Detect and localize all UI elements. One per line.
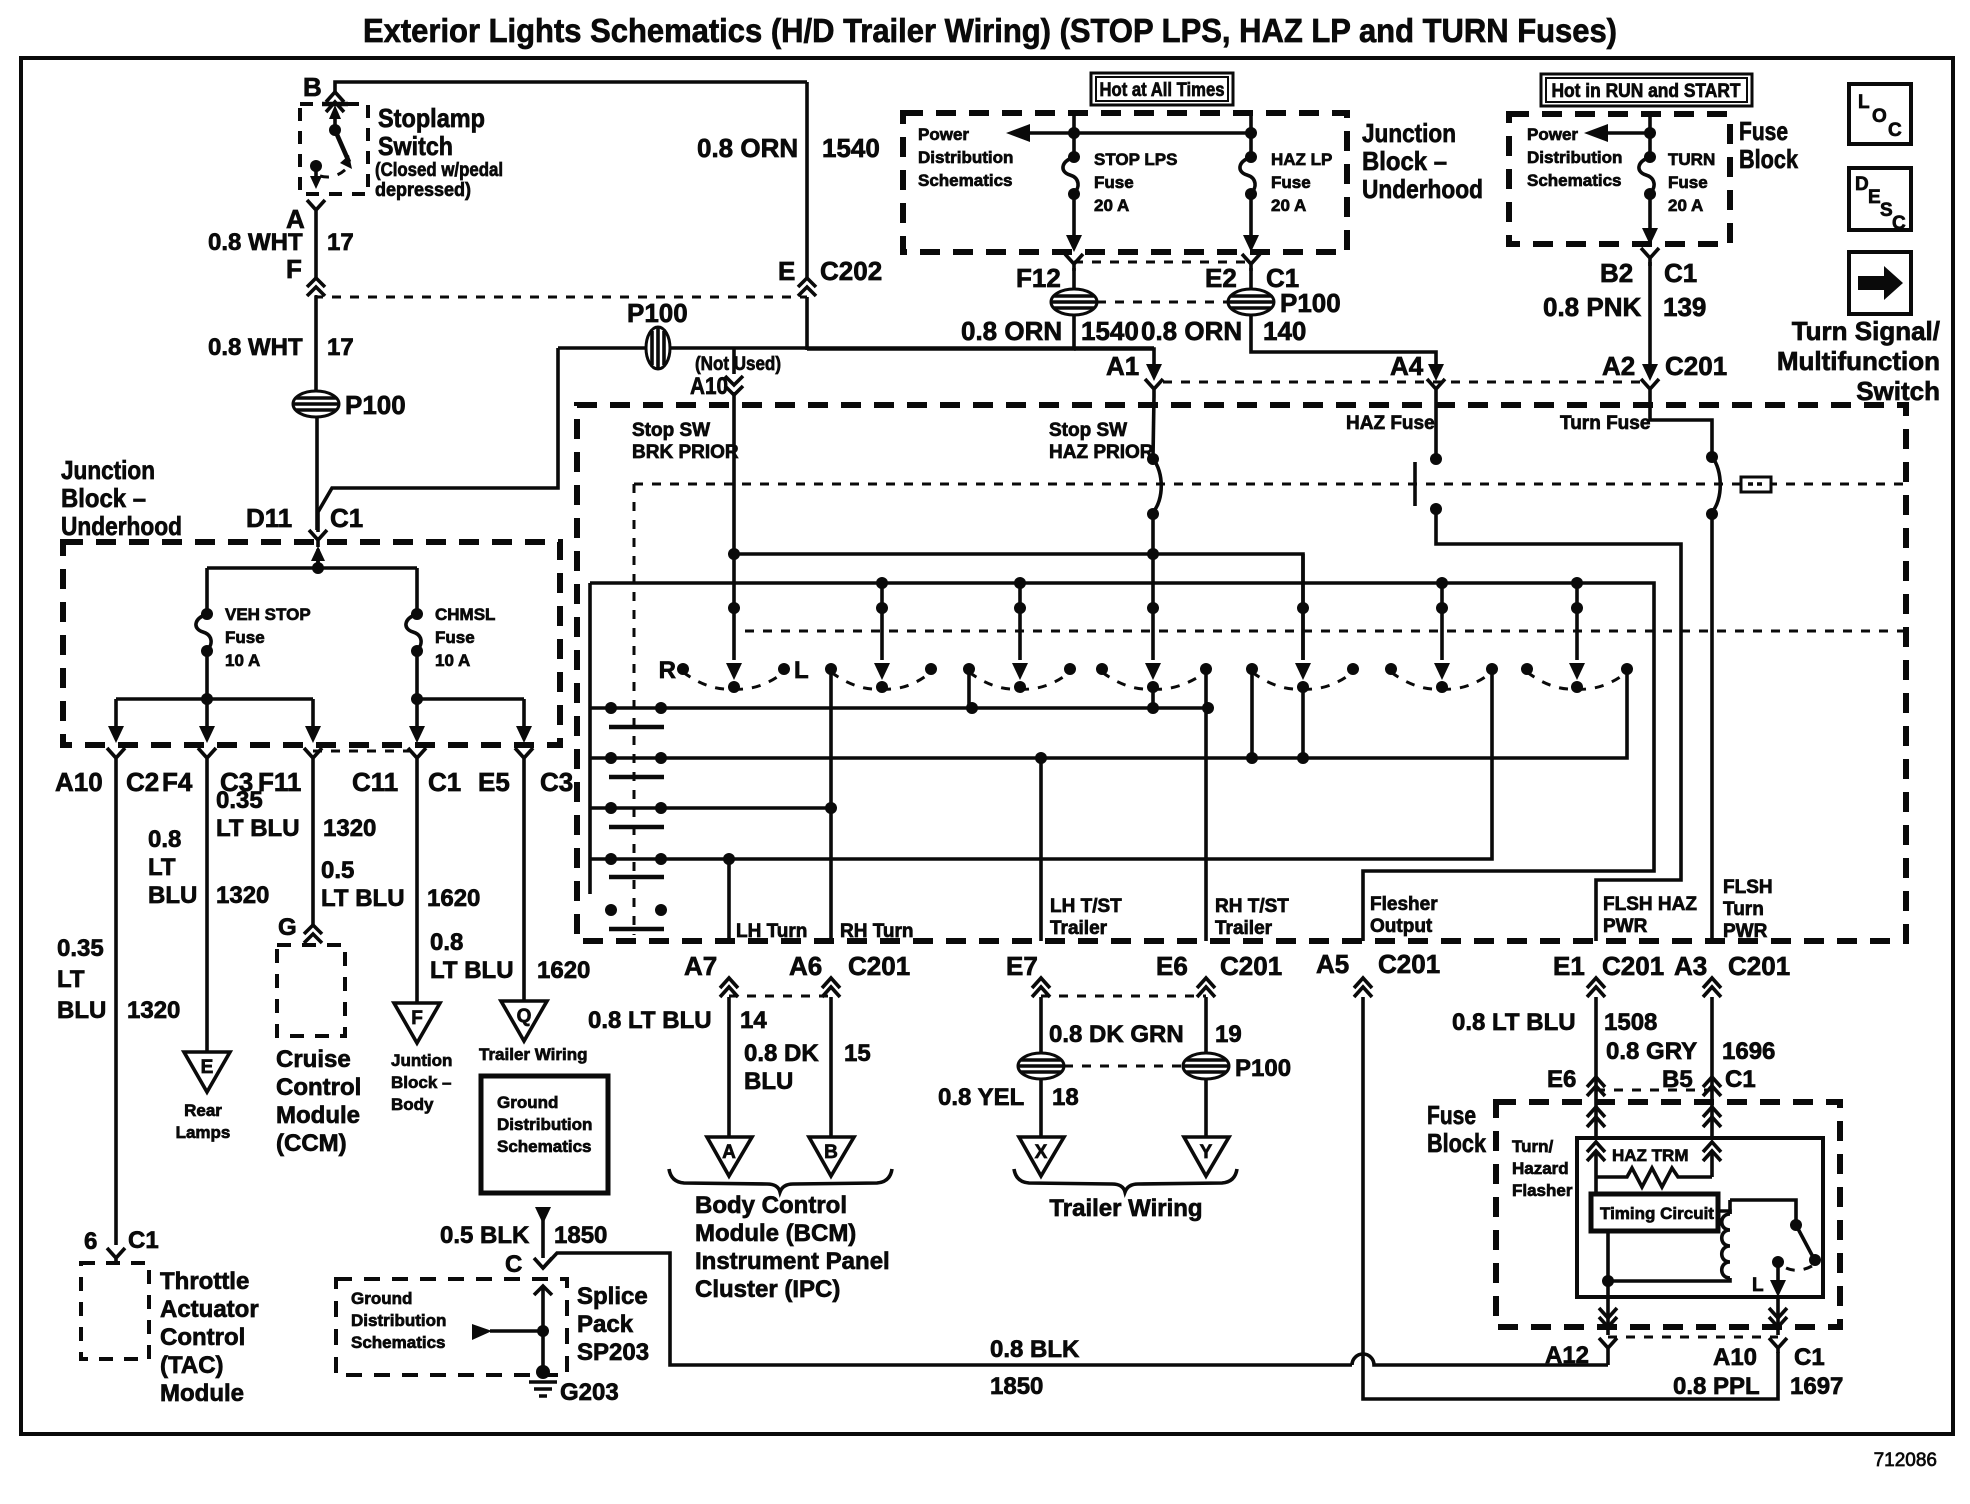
connector chevron D11: [309, 530, 327, 547]
svg-text:Schematics: Schematics: [918, 171, 1013, 190]
svg-text:1508: 1508: [1604, 1009, 1657, 1036]
stoplamp switch blade: [329, 124, 341, 136]
TURN fuse element: [1644, 151, 1656, 163]
ground G203: [536, 1365, 550, 1379]
svg-text:C: C: [505, 1251, 522, 1278]
svg-text:Junction: Junction: [1362, 118, 1456, 148]
svg-text:Q: Q: [517, 1006, 532, 1027]
svg-text:E5: E5: [478, 767, 510, 797]
CHMSL fuse element: [411, 608, 423, 620]
svg-text:Fuse: Fuse: [1668, 173, 1708, 192]
thin dashed pair line F11-C11: [313, 750, 417, 753]
svg-text:Block: Block: [1427, 1128, 1486, 1158]
connector P100 grommet (F12): [1051, 289, 1097, 315]
svg-text:17: 17: [327, 334, 354, 361]
svg-text:1540: 1540: [822, 133, 880, 163]
E7 chevron: [1032, 978, 1050, 997]
svg-text:F: F: [411, 1008, 423, 1029]
svg-text:(Closed w/pedal: (Closed w/pedal: [375, 160, 503, 181]
svg-text:Instrument Panel: Instrument Panel: [695, 1248, 890, 1275]
flasher inner solid box: [1577, 1138, 1823, 1297]
svg-text:Stop SW: Stop SW: [1049, 420, 1127, 441]
svg-text:Stop SW: Stop SW: [632, 420, 710, 441]
connector chevron F: [307, 278, 325, 296]
terminal triangle A: [707, 1137, 752, 1176]
svg-text:P100: P100: [1235, 1055, 1291, 1082]
connector chevron F12: [1065, 254, 1083, 271]
svg-text:Fuse: Fuse: [225, 628, 265, 647]
contact group 2 wiper: [880, 583, 884, 660]
svg-text:L: L: [794, 657, 809, 684]
contact stub G3 left to bus D: [967, 669, 971, 708]
svg-text:Pack: Pack: [577, 1311, 634, 1338]
svg-text:(Not Used): (Not Used): [695, 354, 781, 375]
A5 chevron: [1354, 978, 1372, 997]
svg-text:10 A: 10 A: [225, 651, 260, 670]
splice feed arrow: [472, 1324, 492, 1340]
contact group 3 wiper: [1018, 583, 1022, 660]
svg-text:R: R: [659, 657, 676, 684]
arrows down to connector row (right group): [415, 699, 419, 728]
svg-text:1620: 1620: [537, 957, 590, 984]
comb separator bars: [609, 725, 664, 730]
DESC box: [1849, 168, 1911, 230]
svg-text:Underhood: Underhood: [61, 511, 182, 541]
svg-text:0.8 ORN: 0.8 ORN: [961, 316, 1062, 346]
svg-text:Throttle: Throttle: [160, 1268, 249, 1295]
E6 chevron: [1197, 978, 1215, 997]
L contact: [1772, 1256, 1784, 1268]
svg-text:Schematics: Schematics: [497, 1137, 592, 1156]
svg-text:Splice: Splice: [577, 1283, 648, 1310]
svg-text:0.8 DK: 0.8 DK: [744, 1040, 819, 1067]
svg-text:A10: A10: [55, 767, 103, 797]
svg-text:Fuse: Fuse: [1094, 173, 1134, 192]
svg-text:A6: A6: [789, 951, 822, 981]
svg-text:Fuse: Fuse: [1271, 173, 1311, 192]
svg-text:Module: Module: [160, 1380, 244, 1407]
svg-text:10 A: 10 A: [435, 651, 470, 670]
terminal triangle X: [1019, 1137, 1064, 1176]
svg-text:C1: C1: [1794, 1344, 1825, 1371]
switch feed line: [1730, 1200, 1796, 1222]
terminal triangle F: [394, 1003, 440, 1043]
RH Turn drop wire: [829, 669, 833, 941]
svg-text:Lamps: Lamps: [176, 1123, 231, 1142]
svg-text:HAZ Fuse: HAZ Fuse: [1346, 413, 1435, 434]
mechanical linkage dashed line (lower): [745, 630, 1906, 633]
connector P100 grommet (E2): [1228, 289, 1274, 315]
wire P100 down to D11: [315, 417, 319, 530]
svg-text:B: B: [303, 72, 322, 102]
stoplamp switch travel dashes: [320, 168, 347, 177]
stoplamp switch box: [300, 104, 368, 194]
connector chevron B2: [1641, 248, 1659, 266]
svg-text:Control: Control: [160, 1324, 245, 1351]
RH T/ST drop wire: [1204, 669, 1208, 941]
svg-text:140: 140: [1263, 316, 1306, 346]
wire F4 down to rear lamps: [205, 772, 209, 1052]
contact group 7 wiper: [1575, 583, 1579, 660]
svg-text:C201: C201: [1728, 951, 1790, 981]
svg-text:Fuse: Fuse: [1739, 116, 1788, 146]
svg-text:BLU: BLU: [744, 1068, 793, 1095]
svg-text:LH T/ST: LH T/ST: [1050, 896, 1122, 917]
svg-text:Turn: Turn: [1723, 899, 1764, 920]
chevrons into fuse block: [1587, 1107, 1605, 1127]
svg-text:Cluster (IPC): Cluster (IPC): [695, 1276, 840, 1303]
wire F11 down to CCM: [311, 772, 315, 925]
coil: [1722, 1214, 1730, 1278]
svg-text:Block –: Block –: [391, 1073, 451, 1092]
A6 chevron: [822, 978, 840, 997]
dashed pair line E7-E6: [1041, 995, 1206, 998]
svg-text:PWR: PWR: [1723, 921, 1768, 942]
svg-text:Distribution: Distribution: [351, 1311, 446, 1330]
svg-text:BLU: BLU: [148, 882, 197, 909]
forward arrow box: [1849, 252, 1911, 314]
comb row 4 / bus F: [590, 667, 1492, 859]
A12 chevron: [1599, 1338, 1617, 1365]
svg-text:E: E: [201, 1057, 214, 1078]
stoplamp switch lower contact: [310, 160, 322, 172]
svg-text:B2: B2: [1600, 258, 1633, 288]
svg-text:E: E: [1868, 187, 1881, 208]
svg-text:FLSH HAZ: FLSH HAZ: [1603, 894, 1697, 915]
svg-text:Underhood: Underhood: [1362, 174, 1483, 204]
svg-text:Power: Power: [1527, 125, 1578, 144]
feed arrow: [1600, 131, 1650, 135]
svg-text:Trailer: Trailer: [1050, 918, 1108, 939]
svg-text:Flasher: Flasher: [1512, 1181, 1573, 1200]
svg-text:1696: 1696: [1722, 1038, 1775, 1065]
LH Turn drop wire: [727, 859, 731, 941]
svg-text:P100: P100: [345, 390, 406, 420]
wire D11 junction tee: [316, 549, 320, 568]
svg-text:0.8 GRY: 0.8 GRY: [1606, 1038, 1697, 1065]
svg-text:Fuse: Fuse: [1427, 1100, 1476, 1130]
dashed pair line A12-A10: [1608, 1336, 1778, 1339]
wire F12 branch down to A1 rail: [807, 315, 1074, 349]
coil feed: [1718, 1211, 1730, 1214]
svg-text:1620: 1620: [427, 885, 480, 912]
svg-text:E6: E6: [1547, 1066, 1576, 1093]
svg-text:G: G: [278, 914, 297, 941]
feed arrow to power distribution: [1022, 131, 1251, 135]
svg-text:C1: C1: [330, 503, 363, 533]
wire C11 down to junction block body: [415, 772, 419, 1003]
wire E7 to trailer X: [1039, 997, 1043, 1137]
svg-text:20 A: 20 A: [1271, 196, 1306, 215]
chevrons inside flasher: [1587, 1142, 1605, 1161]
svg-text:0.35: 0.35: [57, 935, 104, 962]
svg-text:1850: 1850: [554, 1222, 607, 1249]
stoplamp switch contact bar: [322, 102, 348, 107]
svg-text:E: E: [778, 256, 795, 286]
Hot at All Times header box: [1091, 73, 1233, 105]
svg-text:HAZ TRM: HAZ TRM: [1612, 1146, 1688, 1165]
flasher B5 chevron: [1703, 1077, 1721, 1096]
svg-text:C202: C202: [820, 256, 882, 286]
0.8 BLK 1850 wire to A12 (hop over A5 wire): [1352, 1354, 1608, 1365]
connector row chevrons: [107, 748, 125, 772]
svg-text:D11: D11: [246, 503, 292, 533]
dashed pair line A7-A6: [729, 995, 831, 998]
svg-text:C: C: [1888, 120, 1902, 141]
contact group 6 wiper: [1440, 583, 1444, 660]
svg-text:Trailer Wiring: Trailer Wiring: [1049, 1195, 1202, 1222]
bus A: [734, 554, 1303, 660]
svg-text:LT BLU: LT BLU: [321, 885, 405, 912]
svg-text:B: B: [824, 1142, 838, 1163]
svg-text:L: L: [1752, 1275, 1764, 1296]
svg-text:0.8 PPL: 0.8 PPL: [1673, 1373, 1760, 1400]
svg-text:F4: F4: [162, 767, 193, 797]
junction block underhood (top) dashed box: [903, 113, 1347, 252]
E1 chevron: [1587, 978, 1605, 997]
svg-text:Timing Circuit: Timing Circuit: [1600, 1204, 1714, 1223]
chevron into junction block at D11: [316, 555, 320, 568]
svg-text:S: S: [1880, 200, 1893, 221]
dashed pair line P100-P100: [1097, 301, 1228, 304]
svg-text:A10: A10: [1713, 1344, 1757, 1371]
svg-text:0.8 ORN: 0.8 ORN: [697, 133, 798, 163]
flasher outputs through box: [1608, 1297, 1778, 1335]
HAZ fuse switch (open): [1434, 396, 1438, 459]
svg-text:HAZ LP: HAZ LP: [1271, 150, 1332, 169]
A5 wire down and to A10: [1363, 997, 1778, 1399]
wire F down to P100: [314, 296, 318, 392]
terminal triangle B: [809, 1137, 854, 1176]
svg-text:RH T/ST: RH T/ST: [1215, 896, 1289, 917]
svg-text:1697: 1697: [1790, 1373, 1843, 1400]
svg-text:Schematics: Schematics: [1527, 171, 1622, 190]
connector P100 grommet (E7): [1018, 1053, 1064, 1079]
svg-text:LT BLU: LT BLU: [430, 957, 514, 984]
svg-text:Trailer Wiring: Trailer Wiring: [479, 1045, 587, 1064]
svg-text:Block: Block: [1739, 144, 1798, 174]
svg-text:Hot at All Times: Hot at All Times: [1100, 80, 1225, 101]
svg-text:BRK PRIOR: BRK PRIOR: [632, 442, 739, 463]
svg-text:0.8 LT BLU: 0.8 LT BLU: [588, 1007, 712, 1034]
svg-text:A7: A7: [684, 951, 717, 981]
svg-text:F12: F12: [1016, 263, 1061, 293]
svg-text:Module: Module: [276, 1102, 360, 1129]
svg-text:Rear: Rear: [184, 1101, 222, 1120]
comb row 3: [590, 806, 831, 810]
wire down to CHMSL fuse: [415, 568, 419, 614]
wire A10/C2 down to TAC: [114, 772, 118, 1245]
svg-text:Trailer: Trailer: [1215, 918, 1273, 939]
trailer wiring brace: [1014, 1169, 1237, 1192]
splice pack dashed box: [336, 1279, 567, 1375]
svg-text:C201: C201: [1602, 951, 1664, 981]
wire E5 down to trailer wiring: [522, 772, 526, 1001]
svg-text:C: C: [1892, 213, 1906, 234]
svg-text:C1: C1: [428, 767, 461, 797]
svg-text:E1: E1: [1553, 951, 1585, 981]
svg-text:C201: C201: [1220, 951, 1282, 981]
svg-text:LT: LT: [148, 854, 176, 881]
contact group 4 (HAZ PRIOR wiper): [1151, 554, 1155, 708]
stoplamp switch upper arrow: [333, 114, 337, 130]
svg-text:1850: 1850: [990, 1373, 1043, 1400]
wire E up, 0.8 ORN 1540 rail down: [805, 82, 809, 278]
A10 C1 chevron: [1769, 1338, 1787, 1353]
svg-text:Distribution: Distribution: [918, 148, 1013, 167]
svg-text:Ground: Ground: [351, 1289, 412, 1308]
svg-text:139: 139: [1663, 292, 1706, 322]
svg-text:PWR: PWR: [1603, 916, 1648, 937]
wire below CHMSL fuse: [415, 651, 419, 699]
svg-text:0.8 PNK: 0.8 PNK: [1543, 292, 1641, 322]
svg-text:(TAC): (TAC): [160, 1352, 224, 1379]
fuse block (top) dashed box: [1509, 114, 1730, 244]
svg-text:20 A: 20 A: [1094, 196, 1129, 215]
svg-text:LH Turn: LH Turn: [736, 921, 807, 942]
svg-text:0.8 BLK: 0.8 BLK: [990, 1336, 1080, 1363]
svg-text:P100: P100: [627, 298, 688, 328]
svg-text:Distribution: Distribution: [1527, 148, 1622, 167]
svg-text:Body: Body: [391, 1095, 434, 1114]
svg-text:Y: Y: [1200, 1142, 1213, 1163]
TURN fuse output arrow: [1648, 194, 1652, 230]
svg-text:Body Control: Body Control: [695, 1192, 847, 1219]
svg-text:C1: C1: [1664, 258, 1697, 288]
svg-text:Fuse: Fuse: [435, 628, 475, 647]
svg-text:A4: A4: [1390, 351, 1424, 381]
svg-text:E7: E7: [1006, 951, 1038, 981]
wire E2 branch down to A4: [1251, 315, 1436, 366]
svg-text:Turn Signal/: Turn Signal/: [1792, 316, 1940, 346]
timing circuit box: [1591, 1194, 1718, 1231]
svg-text:0.8 DK GRN: 0.8 DK GRN: [1049, 1021, 1184, 1048]
wire A7 to BCM A: [727, 997, 731, 1137]
svg-text:17: 17: [327, 229, 354, 256]
svg-text:Switch: Switch: [1856, 376, 1940, 406]
svg-text:19: 19: [1215, 1021, 1242, 1048]
dashed connector row line A1-A4-A2: [1163, 381, 1649, 384]
connector chevron E: [798, 278, 816, 296]
svg-text:F: F: [286, 254, 302, 284]
svg-text:0.35: 0.35: [216, 787, 263, 814]
bus B: [590, 583, 1654, 941]
svg-text:0.5 BLK: 0.5 BLK: [440, 1222, 530, 1249]
connector C202 dashed line F to E: [316, 295, 807, 297]
coil bottom to output: [1608, 1278, 1730, 1281]
svg-text:Block –: Block –: [1362, 146, 1447, 176]
arrows down to connector row (left group): [114, 699, 118, 728]
BCM brace: [669, 1169, 892, 1192]
svg-text:1320: 1320: [127, 997, 180, 1024]
svg-text:1320: 1320: [216, 882, 269, 909]
wire below ground distribution box: [535, 1207, 551, 1224]
cruise control module dashed box: [277, 945, 345, 1036]
svg-text:Actuator: Actuator: [160, 1296, 259, 1323]
A3 chevron: [1703, 978, 1721, 997]
flasher E6 chevron: [1587, 1077, 1605, 1096]
comb row 5 dots: [605, 904, 617, 916]
svg-text:C1: C1: [128, 1227, 159, 1254]
linkage actuator symbol: [1741, 477, 1771, 492]
svg-text:Switch: Switch: [378, 131, 453, 161]
svg-text:HAZ PRIOR: HAZ PRIOR: [1049, 442, 1154, 463]
svg-text:G203: G203: [560, 1379, 619, 1406]
0.8 WHT rail into switch: [558, 346, 1154, 350]
svg-text:Cruise: Cruise: [276, 1046, 351, 1073]
svg-text:0.8 WHT: 0.8 WHT: [208, 229, 303, 256]
svg-text:Exterior Lights Schematics (H/: Exterior Lights Schematics (H/D Trailer …: [363, 12, 1617, 49]
wire stub above HAZ LP fuse: [1249, 113, 1253, 155]
Hot in RUN and START header box: [1541, 74, 1752, 106]
svg-text:0.8 LT BLU: 0.8 LT BLU: [1452, 1009, 1576, 1036]
svg-text:14: 14: [740, 1007, 767, 1034]
comb row 2 / bus E: [590, 667, 1627, 758]
contact group 1 (BRK PRIOR wiper): [732, 392, 736, 660]
wire A6 to BCM B: [829, 997, 833, 1137]
svg-text:0.8: 0.8: [430, 929, 463, 956]
svg-text:CHMSL: CHMSL: [435, 605, 495, 624]
LH T/ST drop wire: [1039, 758, 1043, 941]
svg-text:0.5: 0.5: [321, 857, 354, 884]
terminal triangle E: [184, 1052, 230, 1092]
connector P100 grommet (vertical, on WHT rail): [646, 327, 670, 369]
svg-text:C3: C3: [540, 767, 573, 797]
svg-text:SP203: SP203: [577, 1339, 649, 1366]
svg-text:O: O: [1872, 106, 1887, 127]
svg-text:Power: Power: [918, 125, 969, 144]
svg-text:P100: P100: [1280, 288, 1341, 318]
svg-text:Turn Fuse: Turn Fuse: [1560, 413, 1650, 434]
wire stub above STOP LPS fuse: [1072, 113, 1076, 155]
svg-text:0.8 YEL: 0.8 YEL: [938, 1084, 1024, 1111]
STOP LPS fuse output arrow: [1072, 194, 1076, 237]
wire E1 down to flasher E6: [1594, 997, 1598, 1102]
junction block underhood dashed box (left): [63, 542, 560, 745]
svg-text:VEH STOP: VEH STOP: [225, 605, 311, 624]
svg-text:D: D: [1855, 174, 1869, 195]
svg-text:C2: C2: [126, 767, 159, 797]
svg-text:18: 18: [1052, 1084, 1079, 1111]
svg-text:Block –: Block –: [61, 483, 146, 513]
wire down to VEH STOP fuse: [205, 568, 209, 614]
STOP LPS fuse element: [1068, 151, 1080, 163]
Turn fuse switch contacts: [1650, 396, 1712, 457]
svg-text:Turn/: Turn/: [1512, 1137, 1554, 1156]
terminal triangle Y: [1184, 1137, 1229, 1176]
svg-text:E2: E2: [1205, 263, 1237, 293]
connector chevron A: [307, 200, 325, 220]
svg-text:Hot in RUN and START: Hot in RUN and START: [1552, 81, 1741, 102]
svg-text:Juntion: Juntion: [391, 1051, 452, 1070]
svg-text:C201: C201: [848, 951, 910, 981]
HAZ TRM resistor: [1596, 1151, 1712, 1194]
svg-text:BLU: BLU: [57, 997, 106, 1024]
svg-text:Output: Output: [1370, 916, 1433, 937]
svg-text:15: 15: [844, 1040, 871, 1067]
wire F12 to P100: [1072, 268, 1076, 290]
mechanical linkage dashed line (upper): [634, 483, 1906, 486]
svg-text:A1: A1: [1106, 351, 1139, 381]
svg-text:A2: A2: [1602, 351, 1635, 381]
connector P100 grommet (left): [293, 390, 406, 420]
svg-text:L: L: [1858, 92, 1870, 113]
svg-text:Junction: Junction: [61, 455, 155, 485]
svg-text:0.8 WHT: 0.8 WHT: [208, 334, 303, 361]
VEH STOP fuse element: [201, 608, 213, 620]
svg-text:depressed): depressed): [375, 180, 471, 201]
connector chevron E2: [1242, 254, 1260, 271]
